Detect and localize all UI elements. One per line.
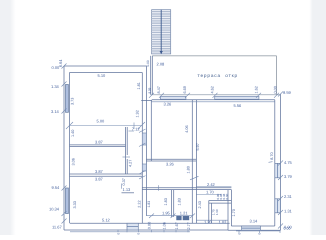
svg-text:4.27: 4.27 — [129, 160, 133, 167]
svg-text:9.54: 9.54 — [52, 185, 61, 190]
left dim ticks — [62, 109, 67, 114]
windows — [66, 85, 281, 231]
dim 7.12 underline — [129, 130, 135, 132]
svg-text:1.13: 1.13 — [123, 187, 132, 192]
terrace outline — [152, 56, 276, 95]
wing right wall ticks — [157, 185, 159, 191]
svg-text:0.00: 0.00 — [274, 86, 278, 93]
svg-text:1.70: 1.70 — [232, 209, 236, 216]
svg-text:10.34: 10.34 — [49, 207, 60, 212]
svg-text:1.67: 1.67 — [175, 222, 179, 229]
dim 3.26 hall — [151, 101, 197, 103]
svg-text:2.22: 2.22 — [137, 200, 141, 207]
terrace dim ticks — [213, 93, 218, 98]
bottom ticks — [279, 230, 281, 233]
svg-text:4.75: 4.75 — [284, 160, 293, 165]
svg-text:11.67: 11.67 — [52, 225, 62, 230]
svg-text:2.42: 2.42 — [207, 182, 216, 187]
dim 1.20/1.02 — [236, 230, 281, 232]
svg-text:6.69: 6.69 — [183, 86, 187, 93]
svg-text:5.10: 5.10 — [98, 73, 107, 78]
svg-text:5.12: 5.12 — [102, 217, 111, 222]
svg-text:7.12: 7.12 — [132, 127, 141, 132]
connector wall — [141, 100, 152, 102]
dim 2.42 — [196, 186, 231, 188]
svg-text:1.62: 1.62 — [255, 86, 259, 93]
hall left wall — [150, 100, 152, 161]
hatch on wing right wall — [142, 133, 146, 145]
right wall dim ticks — [278, 92, 283, 97]
left dim ticks — [62, 211, 67, 216]
interior wall x125 — [125, 127, 127, 174]
window right wall 2 — [275, 199, 281, 213]
svg-text:3.26: 3.26 — [166, 162, 175, 167]
svg-text:0.37: 0.37 — [122, 178, 126, 185]
bath mid wall — [171, 190, 173, 217]
svg-text:1.06: 1.06 — [163, 222, 167, 229]
svg-text:2.08: 2.08 — [157, 61, 166, 66]
dimension lines — [62, 64, 284, 234]
interior wall y160 — [146, 158, 196, 160]
svg-text:3.14: 3.14 — [250, 219, 259, 224]
interior wall y174 — [70, 173, 143, 175]
svg-text:1.80: 1.80 — [187, 166, 191, 173]
left dim ticks — [62, 186, 67, 191]
svg-text:0.00: 0.00 — [284, 227, 291, 231]
svg-text:0.00: 0.00 — [148, 222, 152, 229]
svg-text:8.47: 8.47 — [157, 86, 161, 93]
svg-text:1.81: 1.81 — [137, 82, 141, 89]
svg-text:3.87: 3.87 — [95, 169, 104, 174]
svg-text:1.02: 1.02 — [219, 219, 228, 224]
svg-text:1.83: 1.83 — [147, 201, 151, 208]
svg-text:1.95: 1.95 — [162, 210, 171, 215]
rotated labels — [58, 59, 278, 235]
wing right wall ticks — [139, 171, 146, 174]
bottom ticks — [187, 230, 189, 233]
svg-text:4.06: 4.06 — [185, 125, 189, 132]
svg-text:1.70: 1.70 — [206, 189, 215, 194]
window bottom right — [242, 226, 261, 230]
right wall dim ticks — [278, 224, 283, 229]
window right wall 1 — [275, 163, 281, 177]
bottom ticks — [126, 230, 128, 233]
terrace dim ticks — [256, 93, 261, 98]
dim 5.56 right room — [196, 101, 274, 103]
left gray band — [0, 0, 10, 235]
bottom ticks — [259, 230, 261, 233]
bottom ticks — [137, 230, 139, 233]
right wall dim ticks — [278, 161, 283, 166]
left outer wall — [63, 66, 65, 230]
svg-text:1.60: 1.60 — [215, 209, 219, 215]
dim 1.95/1.21 — [146, 215, 192, 217]
svg-text:2.31: 2.31 — [284, 194, 293, 199]
svg-text:0.60: 0.60 — [225, 193, 229, 199]
svg-text:3.06: 3.06 — [72, 158, 76, 165]
window left wall 2 — [66, 188, 69, 214]
right wall dim ticks — [278, 196, 283, 201]
terrace left wall — [150, 56, 152, 95]
dim 5.00 room line — [138, 122, 145, 129]
window top wall 1 — [160, 96, 186, 99]
hall right wall — [191, 100, 193, 224]
dim 1.70 small — [196, 194, 221, 196]
interior wall y145 — [70, 144, 126, 146]
svg-text:3.33: 3.33 — [73, 201, 77, 208]
wc box — [209, 200, 232, 202]
svg-text:1.34: 1.34 — [51, 84, 60, 89]
svg-text:2.43: 2.43 — [198, 201, 202, 208]
left dim ticks — [62, 64, 67, 69]
svg-text:4.62: 4.62 — [211, 86, 215, 93]
bottom ticks — [238, 230, 240, 233]
door gap tick x125 wall — [123, 156, 131, 158]
staircase — [152, 10, 171, 55]
dim 1.95/1.21 — [190, 214, 195, 219]
svg-text:3.79: 3.79 — [284, 174, 293, 179]
dim 5.00 room line — [70, 125, 142, 127]
window left wall 1 — [66, 85, 69, 113]
svg-text:9.59: 9.59 — [283, 90, 292, 95]
central top wall — [151, 94, 281, 96]
bottom ticks — [175, 230, 177, 233]
svg-text:1.31: 1.31 — [284, 209, 293, 214]
svg-text:1.92: 1.92 — [136, 110, 140, 117]
terrace dim ticks — [274, 93, 279, 98]
wall y188 — [142, 187, 231, 189]
svg-text:3.87: 3.87 — [95, 176, 104, 181]
bottom ticks — [117, 230, 119, 233]
svg-text:1.21: 1.21 — [180, 210, 189, 215]
bottom ticks — [163, 230, 165, 233]
outer wall top-left wing — [64, 65, 146, 67]
svg-text:1.83: 1.83 — [164, 198, 168, 205]
right wall dim ticks — [278, 210, 283, 215]
svg-text:5.00: 5.00 — [97, 119, 106, 124]
dim 1.20/1.02 — [196, 219, 228, 221]
svg-text:5.56: 5.56 — [234, 103, 243, 108]
dim 1.95/1.21 — [171, 214, 176, 219]
dim 1.20/1.02 — [70, 231, 190, 233]
window top wall 2 — [215, 96, 259, 99]
terrace dim ticks — [159, 93, 164, 98]
wing right wall ticks — [139, 143, 146, 147]
step wall verticals — [227, 190, 229, 231]
svg-text:9.09: 9.09 — [147, 87, 151, 93]
svg-text:1.83: 1.83 — [178, 198, 182, 205]
right wall dim ticks — [269, 161, 273, 164]
svg-text:1.20: 1.20 — [204, 219, 213, 224]
right outer wall — [280, 94, 282, 230]
svg-text:терраса откр: терраса откр — [198, 73, 238, 78]
svg-text:3.26: 3.26 — [164, 101, 173, 106]
bottom wall left section — [64, 229, 228, 231]
svg-text:2.77: 2.77 — [187, 222, 191, 229]
0.37 dim — [121, 184, 123, 189]
terrace dim ticks — [185, 93, 190, 98]
svg-text:0.00: 0.00 — [146, 60, 150, 66]
wing right wall — [145, 66, 147, 216]
right gray band — [313, 0, 326, 235]
door sill dark bars — [176, 216, 181, 220]
left dim ticks — [62, 82, 67, 87]
svg-text:3.14: 3.14 — [51, 109, 60, 114]
svg-text:1.40: 1.40 — [71, 130, 75, 137]
svg-text:3.73: 3.73 — [71, 98, 75, 105]
hall wall tick — [190, 176, 199, 180]
right wall dim ticks — [278, 175, 283, 180]
bottom ticks — [151, 230, 153, 233]
left dim ticks — [62, 219, 67, 224]
bottom wall right section — [228, 229, 281, 231]
small dim wall 1.13 — [122, 192, 135, 194]
svg-text:8.70: 8.70 — [270, 152, 274, 159]
svg-text:6.64: 6.64 — [58, 59, 63, 68]
dim 1.95/1.21 — [149, 214, 154, 219]
terrace dim ticks — [149, 93, 154, 98]
dim 5.00 room line — [66, 122, 73, 129]
svg-text:5.97: 5.97 — [196, 143, 200, 150]
window bottom wall left — [127, 223, 138, 230]
wing right wall ticks — [139, 176, 146, 179]
svg-text:3.87: 3.87 — [95, 140, 104, 145]
wing right wall ticks — [139, 129, 146, 133]
